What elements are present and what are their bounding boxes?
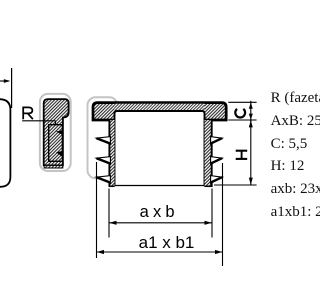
H extension line: [214, 184, 257, 186]
a x b dimension line: [109, 222, 212, 224]
svg-text:a1 x b1: a1 x b1: [139, 233, 195, 252]
H dimension line: [250, 120, 252, 185]
H label: [236, 151, 248, 159]
front view rounded rect (partial, left edge): [0, 99, 10, 187]
small view fin chevron 1: [56, 130, 62, 135]
web band (dense hatch): [115, 104, 205, 111]
a1 x b1 extension lines: [96, 162, 98, 258]
svg-text:a x b: a x b: [140, 203, 175, 221]
left fin 1: [96, 137, 110, 145]
left fin 3: [96, 176, 110, 184]
C extension lines: [228, 101, 256, 103]
cavity (inner body): [115, 111, 205, 186]
extension line left view: [11, 68, 13, 108]
right fin 3: [211, 176, 223, 184]
right fin 2: [211, 157, 223, 165]
a1 x b1 dimension line: [97, 251, 223, 253]
small view bottom strip: [44, 165, 63, 168]
gray highlight main view: [88, 97, 118, 178]
R leader line: [22, 120, 55, 122]
C dimension line: [250, 101, 252, 122]
small view inner wall rect: [49, 125, 63, 162]
left fin 2: [96, 157, 110, 165]
dimension arrow left view: [0, 80, 9, 82]
small view lip+wall section: [44, 99, 69, 165]
spec text lines: [271, 91, 320, 106]
R label: [23, 107, 33, 119]
C label: [235, 109, 245, 118]
gray highlight small view: [40, 94, 71, 171]
small view fin chevron 2: [56, 151, 62, 157]
right fin 1: [211, 137, 223, 145]
a x b extension lines: [108, 189, 110, 238]
left wall hatched: [109, 120, 114, 187]
flange (lip) hatched: [93, 103, 226, 120]
right wall hatched: [205, 120, 212, 187]
